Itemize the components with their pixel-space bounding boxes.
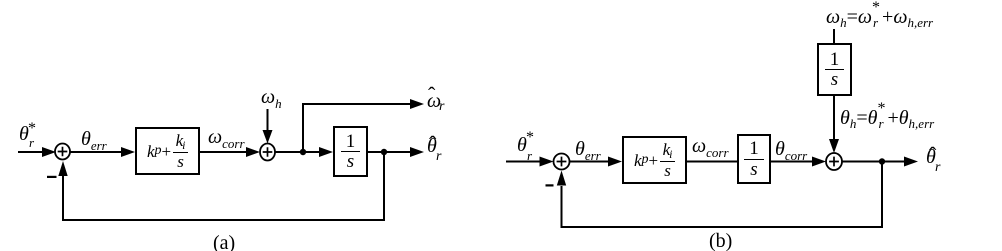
integrator block (a) 1/s [334, 127, 367, 176]
wire omega_h into S2a [263, 109, 273, 144]
label theta_err (a) [81, 129, 107, 152]
label omega_corr (b) [692, 136, 729, 159]
caption (b) [709, 231, 732, 251]
label theta_r hat output (a) [427, 138, 447, 162]
wire input (a) [18, 147, 56, 157]
wire input (b) [506, 157, 554, 167]
summing junction S1a [55, 144, 70, 160]
label 1/s top integrator (b) [818, 44, 851, 95]
integrator block (b) 1/s [738, 135, 770, 183]
label theta_h equation (b) [840, 107, 934, 130]
label 1/s integrator (b) [738, 135, 770, 183]
top integrator block (b) 1/s [818, 44, 851, 95]
node N1a [300, 149, 306, 155]
wire S2a to integrator (a) [275, 147, 333, 157]
summing junction S2b [826, 153, 842, 170]
node N2a [381, 149, 387, 155]
label theta_r* input (a) [19, 124, 39, 148]
wire top integrator to S2b [829, 96, 839, 153]
label omega_h (a) [261, 87, 282, 110]
branch wire to omega_r output [303, 99, 424, 152]
label theta_r* input (b) [517, 135, 537, 159]
label omega_r hat output (a) [427, 88, 447, 112]
wire S1a to PI block [70, 147, 135, 157]
label kp+ki/s (b) [623, 137, 686, 183]
wire S2b to output [842, 157, 918, 167]
label omega_h equation (b) [826, 6, 933, 29]
caption (a) [213, 233, 235, 251]
wire PI to S2a [200, 147, 260, 157]
PI block (b) kp+ki/s [623, 137, 686, 183]
feedback wire (b) [557, 163, 882, 228]
label kp+ki/s (a) [136, 128, 199, 174]
wire S1b to PI block (b) [570, 157, 623, 167]
wire omega_h label to top integrator [833, 29, 835, 44]
label theta_r hat output (b) [926, 149, 946, 173]
minus sign (b) [546, 184, 554, 186]
wire PI to integrator (b) [687, 161, 737, 163]
label 1/s integrator (a) [334, 127, 367, 176]
summing junction S2a [260, 144, 275, 161]
minus sign (a) [47, 176, 57, 178]
summing junction S1b [554, 154, 570, 170]
wire integrator to S2b [771, 157, 826, 167]
wire integrator to theta_r output [368, 147, 424, 157]
label omega_corr (a) [208, 127, 245, 150]
feedback wire (a) [58, 153, 384, 220]
label theta_err (b) [575, 139, 601, 162]
node N1b [879, 158, 885, 164]
PI block (a) kp+ki/s [136, 128, 199, 174]
label theta_corr (b) [775, 139, 807, 162]
